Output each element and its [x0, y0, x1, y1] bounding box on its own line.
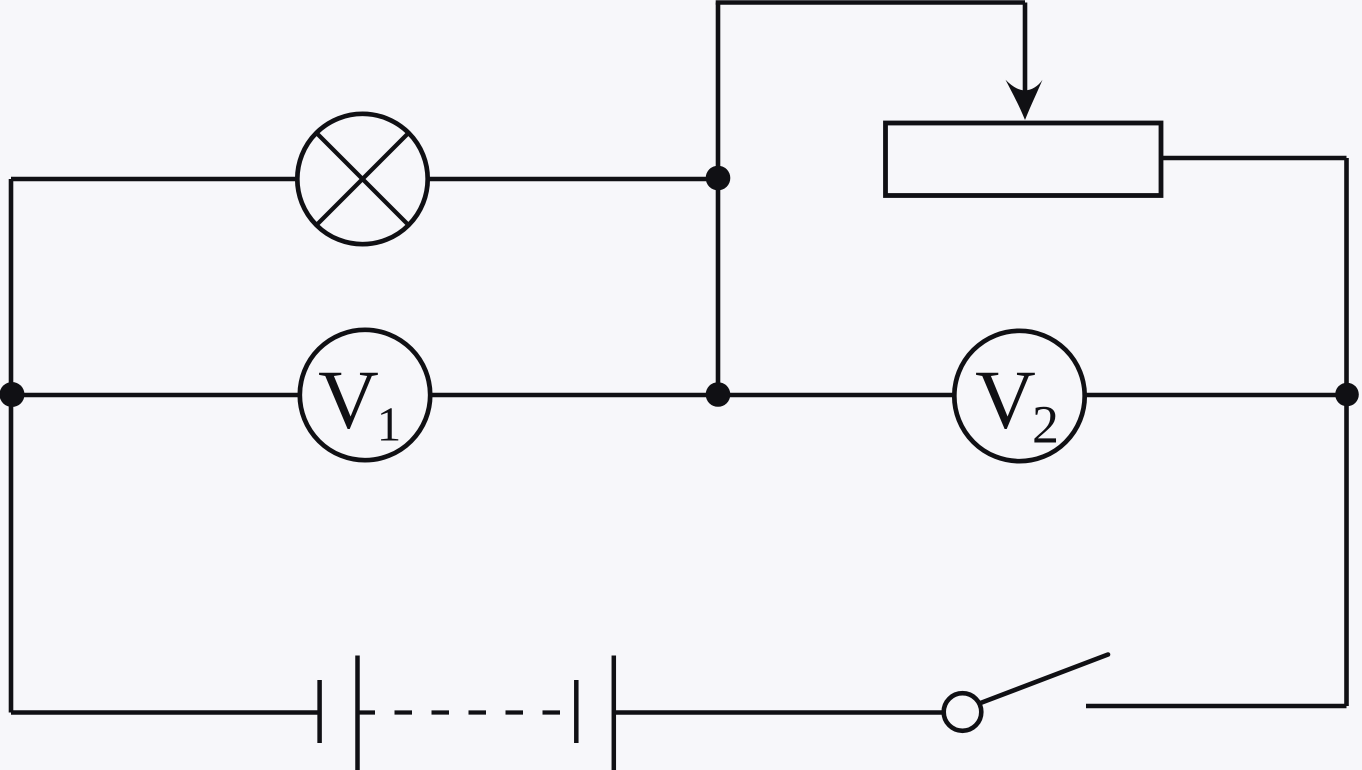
wire: top-left horizontal to lamp — [11, 177, 320, 182]
wire: center vertical from top rail down to middle rail — [716, 3, 721, 396]
rheostat wiper arrowhead — [1006, 80, 1043, 120]
wire: bottom-left horizontal to battery — [11, 710, 318, 715]
junction node: lamp wire / center vertical — [706, 166, 731, 191]
wire: switch right contact to right vertical — [1086, 704, 1347, 709]
battery B1 cell 1: long plate (positive) — [355, 656, 360, 770]
wire: rheostat wiper lead vertical — [1023, 3, 1028, 93]
svg-text:V: V — [318, 354, 379, 447]
wire: rheostat output to right vertical — [1161, 156, 1347, 161]
svg-text:2: 2 — [1032, 395, 1059, 455]
svg-text:V: V — [975, 354, 1036, 447]
junction node: left rail / middle rail — [0, 382, 25, 407]
wire: battery to switch — [614, 710, 943, 715]
junction node: right vertical / middle rail — [1335, 383, 1359, 407]
rheostat R1 (rectangle) — [886, 123, 1162, 196]
wire: lamp to center junction — [400, 177, 718, 182]
switch S1 pivot circle — [944, 693, 982, 731]
wire: left vertical branch — [9, 179, 14, 713]
wire: right vertical branch — [1344, 158, 1349, 706]
wire: middle rail — [11, 393, 1347, 398]
svg-text:1: 1 — [377, 397, 402, 452]
battery dashed link (more cells) — [358, 710, 578, 714]
voltmeter V2 — [954, 331, 1084, 461]
battery B1 cell 1: short plate (negative) — [317, 680, 322, 743]
junction node: center vertical / middle rail — [706, 382, 731, 407]
wire: top rail — [716, 0, 1025, 5]
voltmeter V1 — [300, 330, 430, 460]
battery B1 cell 2: short plate (negative) — [574, 680, 579, 743]
lamp L1 (circle with X) — [297, 114, 427, 244]
switch S1 lever (open) — [981, 655, 1109, 704]
battery B1 cell 2: long plate (positive) — [612, 656, 617, 770]
